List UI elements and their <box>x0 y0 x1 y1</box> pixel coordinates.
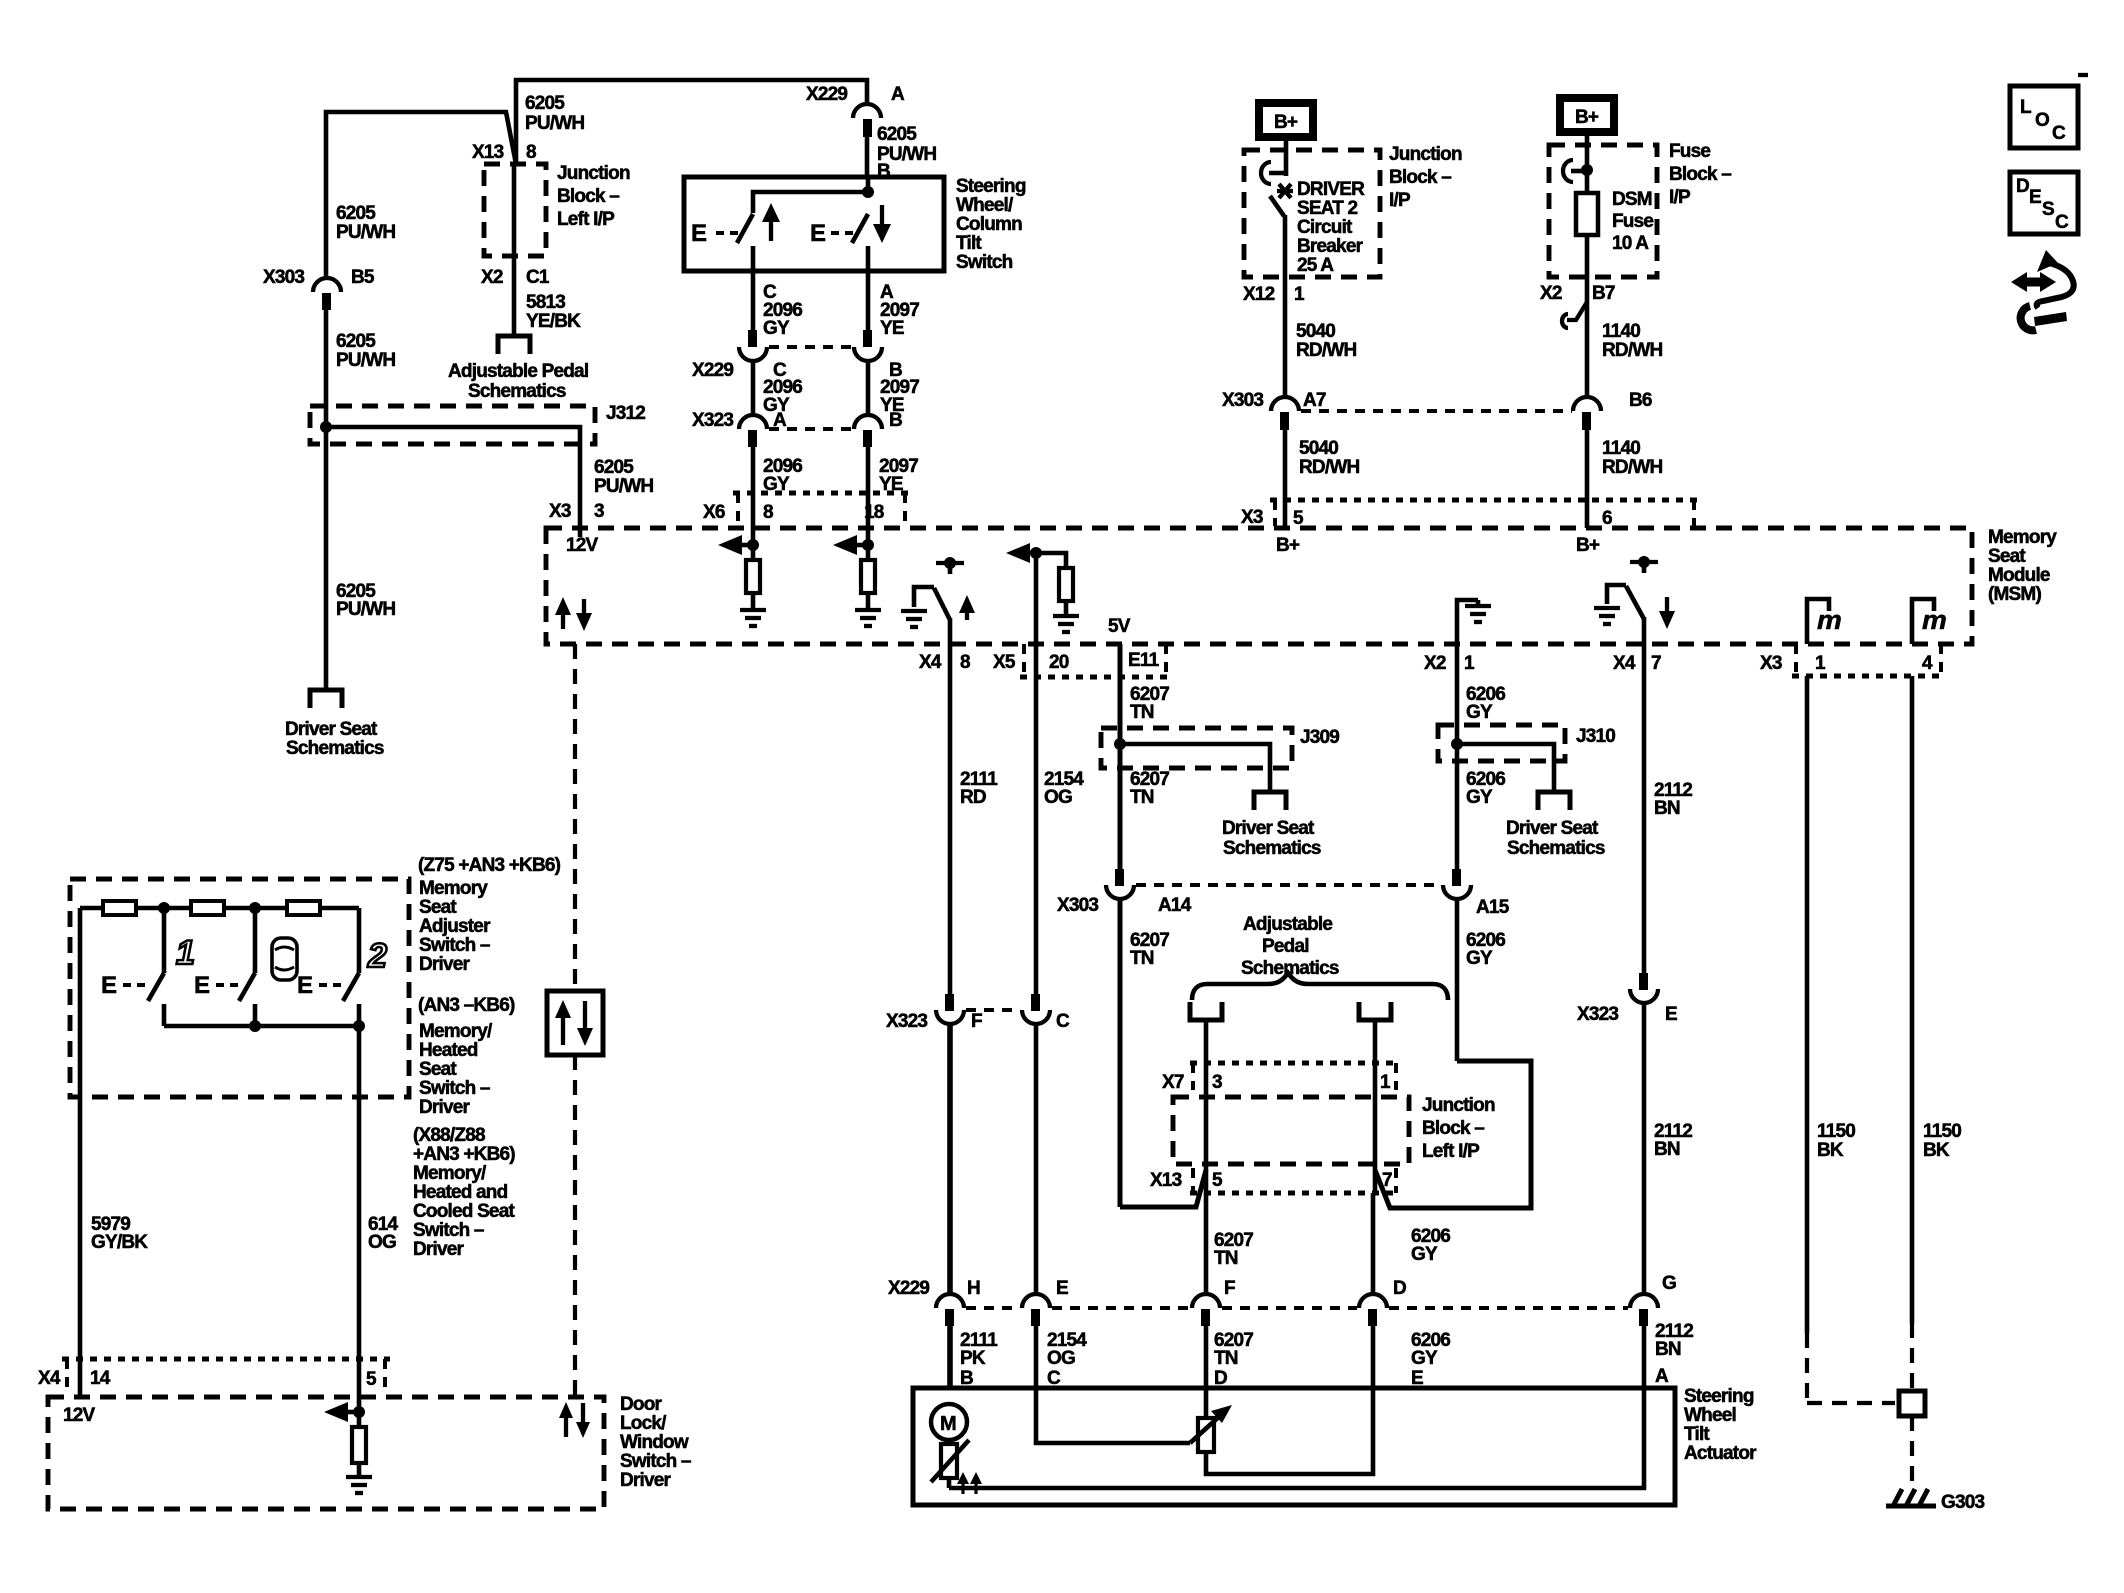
svg-text:Wheel/: Wheel/ <box>956 195 1014 216</box>
svg-text:5: 5 <box>366 1369 377 1390</box>
svg-text:E: E <box>1056 1278 1068 1299</box>
svg-text:TN: TN <box>1130 787 1154 808</box>
svg-text:Column: Column <box>956 214 1022 235</box>
svg-text:B5: B5 <box>351 267 375 288</box>
svg-text:(Z75 +AN3 +KB6): (Z75 +AN3 +KB6) <box>418 855 561 876</box>
svg-text:TN: TN <box>1214 1348 1238 1369</box>
svg-text:Adjustable: Adjustable <box>1243 914 1332 935</box>
svg-text:E: E <box>691 220 707 247</box>
svg-text:Steering: Steering <box>956 176 1026 197</box>
svg-text:L: L <box>2020 97 2032 118</box>
svg-text:Fuse: Fuse <box>1669 141 1710 162</box>
svg-text:S: S <box>2042 199 2054 220</box>
svg-text:C1: C1 <box>526 267 550 288</box>
svg-text:X303: X303 <box>1222 390 1263 411</box>
svg-text:Driver Seat: Driver Seat <box>285 719 378 740</box>
svg-text:+AN3 +KB6): +AN3 +KB6) <box>413 1144 515 1165</box>
svg-text:X3: X3 <box>549 501 571 522</box>
svg-text:TN: TN <box>1214 1248 1238 1269</box>
svg-text:Steering: Steering <box>1684 1386 1754 1407</box>
svg-text:Breaker: Breaker <box>1297 236 1364 257</box>
svg-text:PU/WH: PU/WH <box>336 350 395 371</box>
svg-text:1: 1 <box>1464 653 1475 674</box>
svg-text:YE: YE <box>880 318 904 339</box>
svg-text:1150: 1150 <box>1923 1121 1961 1142</box>
svg-text:X3: X3 <box>1760 653 1782 674</box>
svg-text:X6: X6 <box>703 502 725 523</box>
svg-text:25 A: 25 A <box>1297 255 1334 276</box>
svg-text:YE/BK: YE/BK <box>526 311 581 332</box>
svg-text:DSM: DSM <box>1612 189 1652 210</box>
svg-text:Schematics: Schematics <box>468 381 566 402</box>
svg-text:C: C <box>2052 123 2066 144</box>
svg-text:14: 14 <box>90 1368 111 1389</box>
svg-text:6205: 6205 <box>594 457 634 478</box>
svg-text:Memory/: Memory/ <box>419 1021 493 1042</box>
svg-text:B6: B6 <box>1629 390 1652 411</box>
svg-text:Driver Seat: Driver Seat <box>1506 818 1599 839</box>
svg-text:(MSM): (MSM) <box>1988 584 2041 605</box>
svg-text:Cooled Seat: Cooled Seat <box>413 1201 515 1222</box>
svg-text:Wheel: Wheel <box>1684 1405 1736 1426</box>
svg-text:J312: J312 <box>606 403 645 424</box>
svg-text:PU/WH: PU/WH <box>336 222 395 243</box>
svg-text:A15: A15 <box>1476 897 1510 918</box>
svg-text:(X88/Z88: (X88/Z88 <box>413 1125 485 1146</box>
svg-text:E11: E11 <box>1128 650 1160 671</box>
svg-text:Heated and: Heated and <box>413 1182 508 1203</box>
svg-text:OG: OG <box>1044 787 1072 808</box>
svg-text:A: A <box>773 410 787 431</box>
svg-text:Schematics: Schematics <box>1223 838 1321 859</box>
svg-text:Memory/: Memory/ <box>413 1163 487 1184</box>
svg-text:Driver: Driver <box>620 1470 672 1491</box>
svg-text:Window: Window <box>620 1432 689 1453</box>
svg-text:PU/WH: PU/WH <box>525 113 584 134</box>
svg-text:Adjustable Pedal: Adjustable Pedal <box>448 361 588 382</box>
svg-text:4: 4 <box>1922 653 1933 674</box>
svg-text:7: 7 <box>1651 653 1661 674</box>
svg-text:GY: GY <box>1411 1348 1438 1369</box>
svg-text:BN: BN <box>1655 1339 1681 1360</box>
svg-text:GY/BK: GY/BK <box>91 1232 148 1253</box>
svg-text:1140: 1140 <box>1602 321 1640 342</box>
svg-text:Memory: Memory <box>419 878 488 899</box>
svg-text:Driver: Driver <box>413 1239 465 1260</box>
svg-text:6205: 6205 <box>336 331 376 352</box>
svg-text:(AN3 –KB6): (AN3 –KB6) <box>418 995 515 1016</box>
svg-text:Junction: Junction <box>557 163 630 184</box>
svg-text:8: 8 <box>526 142 536 163</box>
svg-text:Left I/P: Left I/P <box>1422 1141 1480 1162</box>
svg-text:1150: 1150 <box>1817 1121 1855 1142</box>
svg-text:X303: X303 <box>263 267 304 288</box>
svg-text:Tilt: Tilt <box>956 233 982 254</box>
svg-text:Seat: Seat <box>419 1059 457 1080</box>
svg-text:OG: OG <box>368 1232 396 1253</box>
svg-text:E: E <box>2029 187 2041 208</box>
svg-text:A7: A7 <box>1303 390 1326 411</box>
svg-text:Module: Module <box>1988 565 2050 586</box>
svg-text:Seat: Seat <box>1988 546 2026 567</box>
svg-text:G: G <box>1662 1273 1676 1294</box>
svg-text:X4: X4 <box>38 1368 61 1389</box>
svg-text:Actuator: Actuator <box>1684 1443 1757 1464</box>
svg-text:X229: X229 <box>888 1278 929 1299</box>
svg-text:D: D <box>2016 176 2029 197</box>
svg-text:A: A <box>891 84 905 105</box>
svg-text:Fuse: Fuse <box>1612 211 1653 232</box>
svg-text:10 A: 10 A <box>1612 233 1649 254</box>
svg-text:6205: 6205 <box>336 203 376 224</box>
svg-text:1: 1 <box>1294 284 1305 305</box>
svg-text:E: E <box>101 972 117 999</box>
svg-text:BN: BN <box>1654 798 1680 819</box>
svg-text:X2: X2 <box>1540 283 1562 304</box>
svg-text:RD/WH: RD/WH <box>1296 340 1356 361</box>
svg-text:Block –: Block – <box>1422 1118 1484 1139</box>
svg-text:GY: GY <box>1466 787 1493 808</box>
svg-text:E: E <box>810 220 826 247</box>
svg-text:Switch –: Switch – <box>413 1220 484 1241</box>
svg-text:X7: X7 <box>1162 1072 1184 1093</box>
svg-text:PU/WH: PU/WH <box>336 599 395 620</box>
svg-text:6: 6 <box>1602 508 1612 529</box>
svg-text:Circuit: Circuit <box>1297 217 1353 238</box>
svg-text:A: A <box>1655 1366 1669 1387</box>
svg-text:5813: 5813 <box>526 292 565 313</box>
svg-text:Left I/P: Left I/P <box>557 209 615 230</box>
svg-text:E: E <box>297 972 313 999</box>
svg-text:GY: GY <box>1466 702 1493 723</box>
svg-text:E: E <box>194 972 210 999</box>
svg-text:3: 3 <box>1212 1072 1222 1093</box>
svg-text:Block –: Block – <box>557 186 619 207</box>
svg-text:Adjuster: Adjuster <box>419 916 491 937</box>
svg-text:X13: X13 <box>472 142 504 163</box>
svg-text:3: 3 <box>594 501 604 522</box>
svg-text:F: F <box>1224 1278 1235 1299</box>
svg-text:RD: RD <box>960 787 986 808</box>
svg-text:X12: X12 <box>1243 284 1275 305</box>
svg-text:Block –: Block – <box>1669 164 1731 185</box>
svg-text:B+: B+ <box>1576 535 1600 556</box>
svg-text:YE: YE <box>879 474 903 495</box>
svg-text:I/P: I/P <box>1389 190 1411 211</box>
svg-text:Junction: Junction <box>1389 144 1462 165</box>
svg-text:GY: GY <box>1411 1244 1438 1265</box>
svg-text:Switch: Switch <box>956 252 1013 273</box>
svg-text:m: m <box>1817 605 1841 635</box>
svg-text:1: 1 <box>176 934 194 972</box>
svg-text:OG: OG <box>1047 1348 1075 1369</box>
svg-text:X2: X2 <box>481 267 503 288</box>
svg-text:RD/WH: RD/WH <box>1602 457 1662 478</box>
svg-text:X323: X323 <box>886 1011 927 1032</box>
svg-text:Pedal: Pedal <box>1262 936 1309 957</box>
svg-text:X229: X229 <box>806 84 847 105</box>
svg-text:PU/WH: PU/WH <box>594 476 653 497</box>
svg-text:X323: X323 <box>692 410 733 431</box>
svg-text:BK: BK <box>1817 1140 1844 1161</box>
svg-text:20: 20 <box>1049 652 1069 673</box>
svg-text:X323: X323 <box>1577 1004 1618 1025</box>
svg-text:I/P: I/P <box>1669 187 1691 208</box>
svg-text:GY: GY <box>763 474 790 495</box>
svg-text:5V: 5V <box>1108 616 1131 637</box>
svg-text:12V: 12V <box>63 1405 96 1426</box>
svg-text:Memory: Memory <box>1988 527 2057 548</box>
svg-text:Seat: Seat <box>419 897 457 918</box>
svg-text:X4: X4 <box>1613 653 1636 674</box>
svg-text:Lock/: Lock/ <box>620 1413 667 1434</box>
svg-text:D: D <box>1393 1278 1406 1299</box>
svg-text:X13: X13 <box>1150 1170 1182 1191</box>
svg-text:O: O <box>2035 110 2049 131</box>
svg-text:A14: A14 <box>1158 895 1192 916</box>
svg-text:B+: B+ <box>1274 112 1298 133</box>
svg-text:12V: 12V <box>566 535 599 556</box>
svg-text:DRIVER: DRIVER <box>1297 179 1365 200</box>
svg-text:X3: X3 <box>1241 507 1263 528</box>
svg-text:5: 5 <box>1212 1170 1223 1191</box>
svg-text:GY: GY <box>763 318 790 339</box>
svg-text:1140: 1140 <box>1602 438 1640 459</box>
svg-text:F: F <box>971 1011 982 1032</box>
svg-text:2: 2 <box>367 937 387 975</box>
svg-text:RD/WH: RD/WH <box>1299 457 1359 478</box>
svg-text:Switch –: Switch – <box>419 935 490 956</box>
svg-text:J310: J310 <box>1576 726 1615 747</box>
svg-text:B7: B7 <box>1592 283 1615 304</box>
svg-text:1: 1 <box>1815 653 1826 674</box>
svg-text:C: C <box>1056 1011 1070 1032</box>
svg-text:Door: Door <box>620 1394 663 1415</box>
svg-text:GY: GY <box>1466 948 1493 969</box>
svg-text:5040: 5040 <box>1296 321 1335 342</box>
svg-text:Schematics: Schematics <box>1507 838 1605 859</box>
svg-text:BN: BN <box>1654 1139 1680 1160</box>
svg-text:Junction: Junction <box>1422 1095 1495 1116</box>
svg-text:SEAT 2: SEAT 2 <box>1297 198 1358 219</box>
svg-text:TN: TN <box>1130 948 1154 969</box>
svg-text:X2: X2 <box>1424 653 1446 674</box>
svg-text:18: 18 <box>864 502 884 523</box>
svg-text:B+: B+ <box>1575 107 1599 128</box>
svg-text:8: 8 <box>763 502 773 523</box>
svg-text:RD/WH: RD/WH <box>1602 340 1662 361</box>
svg-text:X303: X303 <box>1057 895 1098 916</box>
svg-text:J309: J309 <box>1300 727 1339 748</box>
svg-text:C: C <box>2055 212 2069 233</box>
svg-text:B: B <box>889 410 902 431</box>
svg-text:X229: X229 <box>692 360 733 381</box>
svg-text:G303: G303 <box>1941 1492 1985 1513</box>
svg-text:1: 1 <box>1380 1072 1391 1093</box>
svg-text:BK: BK <box>1923 1140 1950 1161</box>
svg-text:M: M <box>940 1413 956 1435</box>
svg-text:Tilt: Tilt <box>1684 1424 1710 1445</box>
svg-text:7: 7 <box>1382 1170 1392 1191</box>
svg-text:Schematics: Schematics <box>286 738 384 759</box>
svg-text:Driver: Driver <box>419 954 471 975</box>
svg-text:8: 8 <box>960 652 970 673</box>
svg-text:6205: 6205 <box>877 124 917 145</box>
svg-text:Switch –: Switch – <box>620 1451 691 1472</box>
svg-text:5040: 5040 <box>1299 438 1338 459</box>
svg-text:E: E <box>1665 1004 1677 1025</box>
svg-text:m: m <box>1922 605 1946 635</box>
svg-text:Driver: Driver <box>419 1097 471 1118</box>
svg-text:X5: X5 <box>993 652 1016 673</box>
svg-text:B+: B+ <box>1276 535 1300 556</box>
svg-text:Block –: Block – <box>1389 167 1451 188</box>
svg-text:Heated: Heated <box>419 1040 478 1061</box>
svg-text:X4: X4 <box>919 652 942 673</box>
svg-text:6205: 6205 <box>525 93 565 114</box>
svg-text:TN: TN <box>1130 702 1154 723</box>
svg-text:H: H <box>967 1278 980 1299</box>
svg-text:Driver Seat: Driver Seat <box>1222 818 1315 839</box>
svg-text:PK: PK <box>960 1348 986 1369</box>
svg-text:Switch –: Switch – <box>419 1078 490 1099</box>
